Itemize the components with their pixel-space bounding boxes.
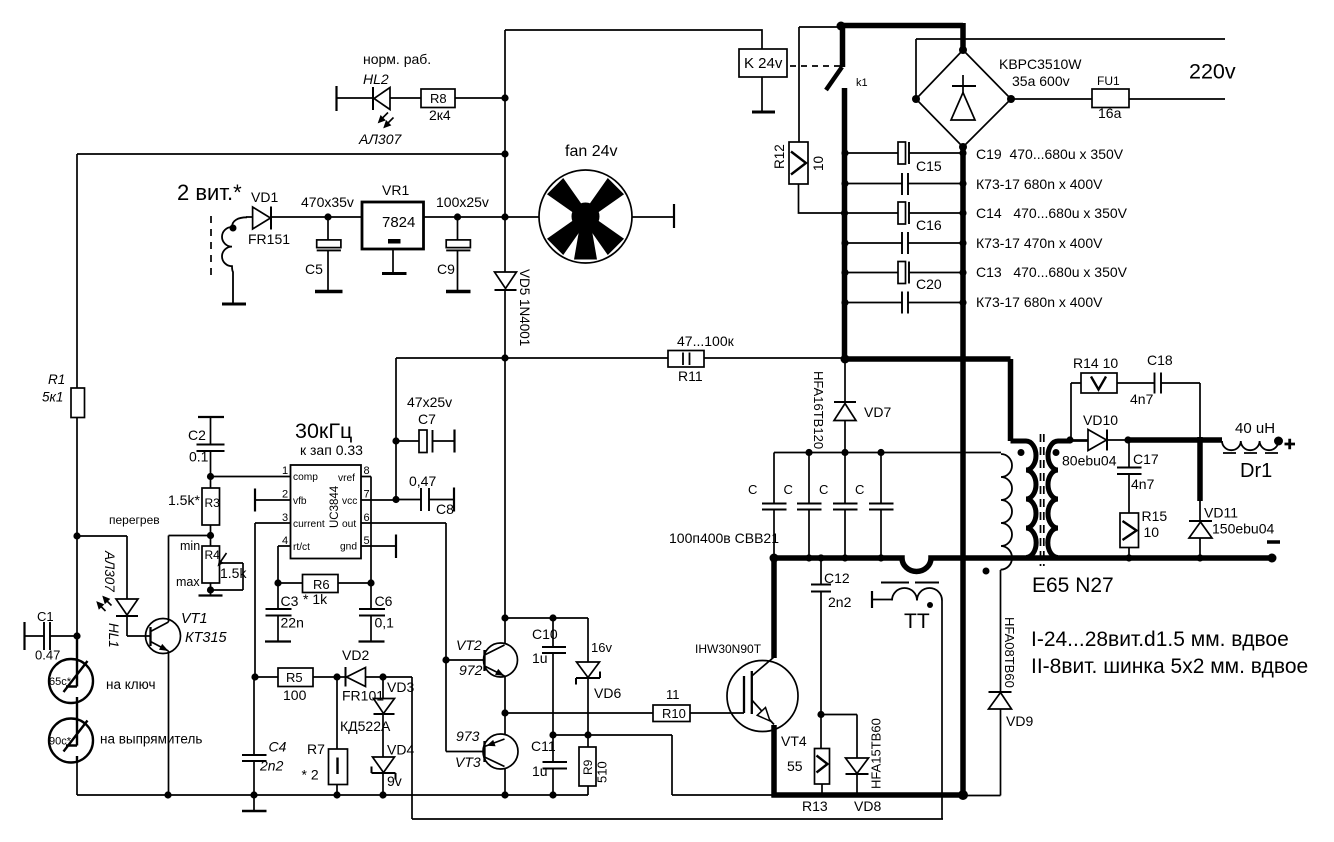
- svg-text:1.5k: 1.5k: [220, 565, 247, 581]
- svg-text:К73-17 680n x 400V: К73-17 680n x 400V: [976, 176, 1103, 192]
- svg-text:vcc: vcc: [342, 496, 357, 507]
- svg-text:К73-17 470n x 400V: К73-17 470n x 400V: [976, 235, 1103, 251]
- svg-text:R4: R4: [205, 548, 221, 562]
- svg-text:3: 3: [282, 512, 288, 524]
- svg-text:7824: 7824: [382, 214, 415, 231]
- svg-text:K 24v: K 24v: [744, 55, 783, 72]
- svg-text:TT: TT: [904, 610, 930, 633]
- svg-text:65c*: 65c*: [49, 676, 72, 688]
- svg-text:VD6: VD6: [594, 685, 621, 701]
- svg-text:АЛ307: АЛ307: [358, 131, 403, 147]
- svg-text:E65 N27: E65 N27: [1032, 574, 1114, 597]
- svg-text:R10: R10: [662, 706, 686, 721]
- svg-text:C: C: [784, 482, 793, 497]
- svg-text:VT2: VT2: [456, 637, 482, 653]
- svg-text:C8: C8: [436, 501, 454, 517]
- svg-text:C19 470...680u x 350V: C19 470...680u x 350V: [976, 146, 1124, 162]
- svg-text:VD3: VD3: [387, 679, 414, 695]
- svg-text:C1: C1: [37, 609, 54, 624]
- svg-text:0,47: 0,47: [409, 473, 436, 489]
- svg-text:VT4: VT4: [781, 733, 807, 749]
- svg-text:перегрев: перегрев: [109, 513, 160, 527]
- svg-text:на ключ: на ключ: [106, 677, 156, 692]
- svg-text:22n: 22n: [281, 615, 304, 631]
- svg-text:KBPC3510W: KBPC3510W: [999, 56, 1082, 72]
- svg-text:* 2: * 2: [302, 767, 319, 783]
- svg-text:C10: C10: [532, 626, 558, 642]
- svg-text:HFA15TB60: HFA15TB60: [869, 718, 884, 789]
- svg-text:k1: k1: [856, 77, 868, 89]
- svg-text:1.5k*: 1.5k*: [168, 492, 200, 508]
- svg-text:VD2: VD2: [342, 647, 369, 663]
- svg-text:R7: R7: [307, 741, 325, 757]
- svg-text:C17: C17: [1133, 451, 1159, 467]
- svg-text:min: min: [180, 539, 200, 553]
- svg-text:gnd: gnd: [340, 542, 357, 553]
- svg-text:C6: C6: [375, 593, 393, 609]
- svg-text:* 1k: * 1k: [303, 591, 328, 607]
- svg-text:к зап 0.33: к зап 0.33: [300, 442, 363, 458]
- svg-text:2 вит.*: 2 вит.*: [177, 180, 242, 205]
- svg-text:out: out: [342, 519, 356, 530]
- svg-text:100: 100: [283, 687, 307, 703]
- svg-text:47x25v: 47x25v: [407, 394, 452, 410]
- svg-text:973: 973: [456, 728, 480, 744]
- svg-text:R13: R13: [802, 798, 828, 814]
- svg-text:fan 24v: fan 24v: [565, 143, 617, 160]
- svg-text:0.1: 0.1: [189, 449, 209, 465]
- svg-text:VT1: VT1: [181, 611, 208, 627]
- svg-text:VD5 1N4001: VD5 1N4001: [517, 269, 532, 346]
- svg-text:9v: 9v: [387, 773, 402, 789]
- svg-text:R1: R1: [48, 372, 65, 387]
- svg-text:КТ315: КТ315: [185, 630, 228, 646]
- svg-text:8: 8: [364, 465, 370, 477]
- svg-text:FR101: FR101: [342, 688, 384, 704]
- svg-text:47...100к: 47...100к: [677, 333, 735, 349]
- svg-text:100п400в СВВ21: 100п400в СВВ21: [669, 530, 779, 546]
- svg-text:10: 10: [811, 156, 826, 171]
- svg-text:1: 1: [282, 465, 288, 477]
- svg-text:1u: 1u: [532, 650, 548, 666]
- svg-text:VD9: VD9: [1006, 713, 1033, 729]
- svg-text:2n2: 2n2: [259, 758, 284, 774]
- svg-text:0.47: 0.47: [35, 648, 60, 663]
- svg-text:HFA08TB60: HFA08TB60: [1002, 617, 1017, 688]
- svg-text:C: C: [855, 482, 864, 497]
- svg-text:C3: C3: [281, 593, 299, 609]
- svg-text:IHW30N90T: IHW30N90T: [695, 642, 762, 656]
- svg-text:2n2: 2n2: [828, 594, 852, 610]
- svg-text:max: max: [176, 575, 200, 589]
- svg-text:5: 5: [364, 535, 370, 547]
- svg-text:FR151: FR151: [248, 231, 290, 247]
- svg-text:HL1: HL1: [106, 623, 121, 648]
- svg-text:C4: C4: [269, 739, 287, 755]
- svg-text:4n7: 4n7: [1131, 476, 1155, 492]
- svg-text:C2: C2: [188, 427, 206, 443]
- svg-text:30кГц: 30кГц: [295, 419, 352, 443]
- svg-text:Dr1: Dr1: [1240, 460, 1272, 482]
- svg-text:C5: C5: [305, 261, 323, 277]
- svg-text:7: 7: [364, 489, 370, 501]
- svg-text:АЛ307: АЛ307: [102, 550, 117, 592]
- svg-text:vref: vref: [338, 473, 355, 484]
- svg-text:1u: 1u: [532, 763, 548, 779]
- svg-text:510: 510: [595, 761, 610, 783]
- svg-text:К73-17 680n x 400V: К73-17 680n x 400V: [976, 294, 1103, 310]
- svg-text:C14 470...680u x 350V: C14 470...680u x 350V: [976, 205, 1128, 221]
- svg-text:40 uH: 40 uH: [1235, 420, 1275, 437]
- svg-text:R9: R9: [581, 759, 595, 775]
- svg-text:C: C: [819, 482, 828, 497]
- svg-text:VD10: VD10: [1083, 412, 1118, 428]
- svg-text:FU1: FU1: [1097, 74, 1120, 88]
- svg-text:I-24...28вит.d1.5 мм. вдвое: I-24...28вит.d1.5 мм. вдвое: [1031, 628, 1289, 651]
- svg-text:vfb: vfb: [293, 496, 307, 507]
- svg-text:VD11: VD11: [1204, 505, 1238, 521]
- svg-text:II-8вит. шинка 5x2 мм. вдвое: II-8вит. шинка 5x2 мм. вдвое: [1031, 655, 1308, 678]
- svg-text:C: C: [748, 482, 757, 497]
- svg-text:на выпрямитель: на выпрямитель: [100, 732, 202, 747]
- svg-text:comp: comp: [293, 472, 318, 483]
- svg-text:470x35v: 470x35v: [301, 194, 354, 210]
- svg-text:VD7: VD7: [864, 404, 891, 420]
- svg-text:R6: R6: [313, 577, 330, 592]
- svg-text:R5: R5: [286, 670, 303, 685]
- svg-text:220v: 220v: [1189, 60, 1236, 84]
- svg-text:11: 11: [666, 687, 680, 702]
- svg-text:0,1: 0,1: [375, 615, 395, 631]
- svg-text:150ebu04: 150ebu04: [1212, 521, 1275, 537]
- svg-text:C13 470...680u x 350V: C13 470...680u x 350V: [976, 264, 1128, 280]
- svg-text:10: 10: [1144, 524, 1160, 540]
- svg-text:972: 972: [459, 662, 483, 678]
- svg-text:VD8: VD8: [854, 798, 881, 814]
- svg-text:UC3844: UC3844: [329, 485, 341, 528]
- svg-text:R15: R15: [1142, 508, 1168, 524]
- svg-text:VD4: VD4: [387, 742, 414, 758]
- svg-text:current: current: [293, 519, 325, 530]
- svg-text:R3: R3: [205, 496, 221, 510]
- svg-text:HFA16TB120: HFA16TB120: [811, 371, 826, 449]
- svg-text:2: 2: [282, 489, 288, 501]
- svg-text:C9: C9: [437, 261, 455, 277]
- svg-text:R14 10: R14 10: [1073, 355, 1118, 371]
- svg-text:C11: C11: [531, 738, 556, 754]
- svg-text:КД522А: КД522А: [340, 718, 391, 734]
- svg-text:4: 4: [282, 535, 288, 547]
- svg-text:35a 600v: 35a 600v: [1012, 73, 1070, 89]
- svg-text:R12: R12: [772, 144, 787, 169]
- svg-text:C16: C16: [916, 217, 942, 233]
- svg-text:5к1: 5к1: [42, 390, 63, 405]
- svg-text:норм. раб.: норм. раб.: [363, 51, 431, 67]
- svg-text:C20: C20: [916, 276, 942, 292]
- svg-text:100x25v: 100x25v: [436, 194, 489, 210]
- svg-text:16a: 16a: [1098, 105, 1122, 121]
- svg-text:90c*: 90c*: [49, 736, 72, 748]
- svg-text:16v: 16v: [591, 640, 612, 655]
- svg-text:4n7: 4n7: [1130, 391, 1154, 407]
- svg-text:80ebu04: 80ebu04: [1062, 453, 1117, 469]
- svg-text:VR1: VR1: [382, 182, 409, 198]
- svg-text:C18: C18: [1147, 352, 1173, 368]
- svg-text:55: 55: [787, 758, 803, 774]
- svg-text:VT3: VT3: [455, 754, 481, 770]
- svg-text:R11: R11: [678, 368, 703, 384]
- svg-text:2к4: 2к4: [429, 107, 451, 123]
- svg-text:6: 6: [364, 512, 370, 524]
- svg-text:VD1: VD1: [251, 189, 278, 205]
- svg-text:rt/ct: rt/ct: [293, 542, 310, 553]
- svg-text:C7: C7: [418, 411, 436, 427]
- svg-text:HL2: HL2: [363, 71, 389, 87]
- svg-text:C15: C15: [916, 158, 942, 174]
- svg-text:R8: R8: [430, 91, 447, 106]
- svg-text:C12: C12: [824, 570, 850, 586]
